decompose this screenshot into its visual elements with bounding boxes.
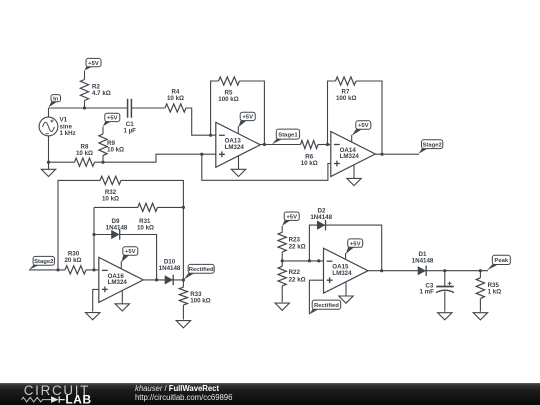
junction Rectified node [182, 278, 185, 281]
flag Stage2 (bottom) [29, 256, 54, 269]
wire bottom rail to R8 [49, 161, 75, 163]
flag Peak [487, 255, 510, 270]
svg-text:10 kΩ: 10 kΩ [137, 224, 154, 231]
svg-text:4.7 kΩ: 4.7 kΩ [92, 90, 111, 97]
diode D10 [159, 259, 181, 285]
wire D9 branch vertical [93, 207, 95, 270]
wire V1 bottom [48, 136, 50, 162]
flag +5V (OA14) [352, 121, 371, 136]
resistor R7 [336, 77, 357, 102]
wire Stage2 input [29, 269, 65, 271]
junction OA13 + node [200, 153, 203, 156]
flag +5V (OA15) [346, 239, 363, 254]
svg-text:R23: R23 [289, 236, 301, 243]
resistor R6 [301, 140, 319, 166]
wire OA13 feedback left [211, 81, 219, 135]
pin OA13 V+ [237, 126, 239, 134]
wire top rail In to C1 [49, 107, 128, 109]
junction R2 tap [83, 106, 86, 109]
svg-text:+5V: +5V [286, 214, 297, 220]
resistor R30 [64, 251, 86, 274]
wire R4 to OA13 inverting input [186, 108, 216, 135]
junction OA15 pin join [317, 259, 320, 262]
resistor R4 [165, 89, 186, 113]
wire OA14 feedback left [328, 81, 336, 145]
resistor R2 [80, 71, 110, 108]
wire D2 to output [309, 225, 381, 271]
ground C3 [438, 313, 452, 320]
svg-text:LM324: LM324 [340, 153, 360, 160]
ground OA16 V- [115, 291, 129, 311]
ground OA13 V- [231, 156, 245, 177]
ground R35 [473, 313, 487, 320]
junction D9 tap [92, 233, 95, 236]
resistor R32 [100, 176, 121, 202]
junction minus node OA16 [92, 268, 95, 271]
capacitor C1 [123, 99, 136, 135]
svg-text:1N4148: 1N4148 [310, 214, 332, 221]
svg-text:1 µF: 1 µF [123, 127, 136, 134]
svg-text:20 kΩ: 20 kΩ [64, 257, 81, 264]
svg-text:Stage2: Stage2 [34, 259, 54, 265]
svg-text:+5V: +5V [358, 123, 369, 129]
svg-text:Peak: Peak [494, 258, 508, 264]
svg-text:1N4148: 1N4148 [106, 224, 128, 231]
junction OA14 output node [380, 153, 383, 156]
resistor R35 [476, 271, 501, 312]
diode D9 [106, 218, 128, 240]
svg-text:10 kΩ: 10 kΩ [107, 146, 124, 153]
flag +5V (R23) [282, 212, 299, 226]
resistor R33 [179, 280, 210, 320]
svg-text:100 kΩ: 100 kΩ [190, 297, 210, 304]
op-amp U3 OA16 [99, 257, 144, 302]
svg-text:+5V: +5V [107, 116, 118, 122]
svg-text:R22: R22 [289, 269, 301, 276]
pin OA14 V+ [351, 135, 353, 142]
resistor R5 [218, 77, 239, 103]
wire OA16 noninverting to ground [93, 289, 99, 311]
svg-text:+5V: +5V [125, 249, 136, 255]
junction V1 bottom node [47, 161, 50, 164]
ground V1 [41, 162, 55, 176]
flag +5V (R9) [103, 113, 120, 126]
ground R33 [176, 321, 190, 328]
diode D2 [310, 207, 332, 230]
wire OA15 noninverting input [309, 280, 323, 314]
wire R31 right [158, 206, 184, 208]
wire rectified vertical [182, 207, 184, 280]
svg-text:LM324: LM324 [225, 144, 245, 151]
flag +5V (R2) [84, 58, 101, 70]
svg-text:Stage1: Stage1 [278, 132, 298, 138]
junction R22/R23 node [281, 259, 284, 262]
ground R22 [275, 303, 289, 310]
flag Stage2 (top) [419, 140, 443, 154]
wire divider to OA15 inverting input [282, 260, 323, 262]
resistor R9 [99, 127, 124, 163]
svg-text:10 kΩ: 10 kΩ [76, 150, 93, 157]
junction OA15 output node [380, 269, 383, 272]
flag Stage1 [272, 129, 300, 144]
wire OA15 output to peak node [368, 270, 488, 272]
svg-text:10 kΩ: 10 kΩ [102, 196, 119, 203]
flag In [49, 95, 61, 108]
svg-text:22 kΩ: 22 kΩ [289, 276, 306, 283]
junction R32 tap on input [56, 268, 59, 271]
wire OA16 output [143, 279, 183, 281]
resistor R31 [137, 203, 157, 231]
junction OA14 feedback tap [326, 143, 329, 146]
junction C3 node [443, 269, 446, 272]
wire C1 to R4 [131, 107, 165, 109]
wire OA13 output [260, 144, 300, 146]
junction R9 bottom node [101, 161, 104, 164]
wire OA14 output to Stage2 [375, 153, 419, 155]
op-amp U4 OA15 [324, 248, 369, 293]
resistor R23 [278, 226, 306, 261]
svg-text:+5V: +5V [350, 241, 361, 247]
wire Stage2 node up-left [58, 180, 100, 270]
svg-text:LM324: LM324 [108, 279, 128, 286]
svg-text:1 kΩ: 1 kΩ [488, 289, 502, 296]
wire V1 top to node In [48, 108, 50, 117]
flag Rectified (output) [184, 264, 215, 279]
svg-text:Rectified: Rectified [314, 303, 339, 309]
attribution text [135, 384, 232, 402]
svg-text:LAB: LAB [65, 393, 91, 405]
op-amp U2 OA14 [331, 132, 376, 177]
resistor R22 [278, 261, 306, 302]
pin OA16 V+ [120, 261, 122, 269]
wire OA14 feedback right [356, 81, 382, 154]
diode D1 [412, 251, 434, 276]
wire R6 to OA14 inverting input [318, 144, 331, 146]
flag +5V (OA13) [238, 112, 255, 127]
resistor R8 [75, 144, 95, 167]
wire R31 left [94, 206, 138, 208]
ground OA14 V- [347, 166, 361, 186]
svg-text:100 kΩ: 100 kΩ [336, 95, 356, 102]
junction OA16 output node [155, 278, 158, 281]
svg-text:1N4148: 1N4148 [159, 265, 181, 272]
voltage source V1 [39, 117, 76, 137]
CircuitLab logo [20, 383, 98, 405]
svg-text:+5V: +5V [88, 61, 99, 67]
wire R8 to OA13 noninverting input [95, 154, 216, 162]
wire D9 to output [94, 235, 157, 280]
svg-text:1 kHz: 1 kHz [60, 130, 76, 137]
footer bar [0, 383, 540, 405]
op-amp U1 OA13 [216, 122, 260, 167]
svg-text:LM324: LM324 [332, 270, 352, 277]
capacitor C3 [419, 271, 454, 312]
junction R35 node [479, 269, 482, 272]
svg-text:+5V: +5V [242, 115, 253, 121]
wire R32 to rectified vertical [121, 180, 183, 207]
svg-text:Rectified: Rectified [189, 267, 214, 273]
pin OA15 V+ [345, 253, 347, 259]
svg-text:1N4148: 1N4148 [412, 258, 434, 265]
flag Rectified (input) [309, 300, 341, 314]
wire OA13 + node to OA14 noninverting input [202, 154, 331, 180]
junction R31/R32 join [182, 206, 185, 209]
svg-text:22 kΩ: 22 kΩ [289, 244, 306, 251]
wire OA13 feedback right [240, 81, 265, 145]
svg-text:100 kΩ: 100 kΩ [218, 96, 238, 103]
ground OA16 + input [86, 313, 100, 320]
svg-text:1 mF: 1 mF [419, 288, 434, 295]
junction D2 tap [308, 259, 311, 262]
wire R30 to OA16 inverting input [86, 269, 99, 271]
svg-text:10 kΩ: 10 kΩ [167, 95, 184, 102]
junction OA13 output node [263, 143, 266, 146]
ground OA15 V- [339, 283, 353, 304]
flag +5V (OA16) [121, 247, 138, 262]
svg-text:In: In [53, 96, 59, 102]
svg-text:Stage2: Stage2 [422, 142, 442, 148]
junction OA13 feedback tap [209, 134, 212, 137]
svg-text:10 kΩ: 10 kΩ [301, 160, 318, 167]
